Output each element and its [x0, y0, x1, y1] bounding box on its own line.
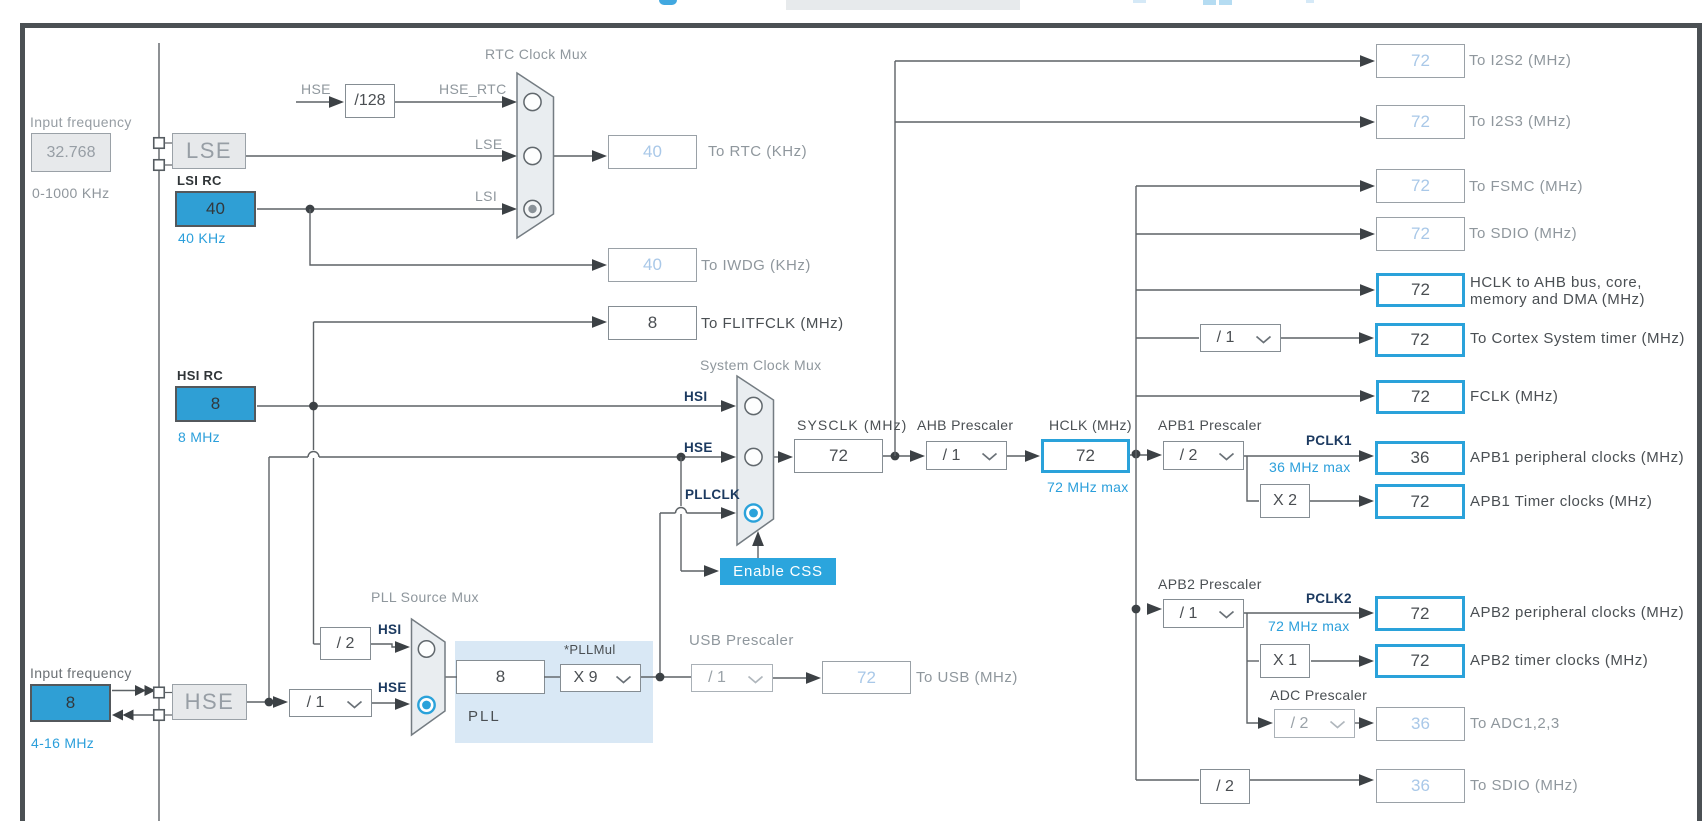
wire CSS rail down to Enable CSS [680, 457, 682, 571]
box HCLK 72 [1041, 439, 1130, 473]
toolbar remnant gray box [786, 0, 1020, 10]
label APB2 timer clocks [1470, 652, 1648, 669]
box APB1 peripheral 36 [1375, 441, 1465, 475]
dropdown APB1 prescaler /2 [1163, 441, 1244, 470]
box Enable CSS button [720, 558, 836, 585]
box To FLITFCLK 8 [608, 306, 697, 340]
label HCLK to AHB two lines [1470, 275, 1645, 308]
wire SYSCLK to AHB prescaler with junction [883, 455, 919, 457]
dropdown APB2 prescaler /1 [1163, 599, 1244, 628]
wire RTC mux output to To-RTC box [554, 155, 596, 157]
label To IWDG [701, 257, 811, 274]
RTC mux radio HSE_RTC [524, 93, 541, 110]
box input frequency 32.768 [31, 133, 111, 172]
label APB1 Prescaler [1158, 417, 1262, 433]
wire Enable CSS up arrow to mux [757, 541, 759, 558]
box To I2S3 72 [1376, 105, 1465, 139]
box /2 PLL HSI divider [320, 627, 371, 660]
label APB1 peripheral clocks [1470, 449, 1684, 466]
wire HSI output [257, 405, 725, 407]
wire system clock mux output SYSCLK [773, 456, 787, 458]
wire SYSCLK rail up to I2S [894, 61, 896, 456]
label RTC Clock Mux [485, 46, 587, 62]
label 40 KHz [178, 230, 226, 246]
wire HSE stub to /128 [296, 101, 333, 103]
label To I2S3 [1469, 113, 1571, 130]
label Input frequency bottom [30, 665, 132, 681]
dropdown HSE /1 divider [289, 689, 372, 717]
RTC mux radio LSI selected [524, 200, 541, 217]
label HCLK (MHz) [1049, 417, 1132, 433]
label System Clock Mux [700, 357, 822, 373]
box To SDIO bottom 36 [1376, 769, 1465, 803]
label ADC Prescaler [1270, 687, 1367, 703]
box APB2 peripheral 72 [1375, 596, 1465, 631]
box To RTC 40 [608, 135, 697, 169]
system mux radio PLLCLK selected [745, 504, 762, 521]
label LSI RC [177, 173, 222, 188]
label HSE_RTC [439, 81, 507, 97]
box HSE input frequency 8 [30, 684, 111, 722]
system mux radio HSI [745, 397, 762, 414]
box PLL input 8 [456, 660, 545, 694]
label FCLK (MHz) [1470, 388, 1558, 405]
wire HCLK rail to /2 SDIO divider [1136, 779, 1199, 781]
wire HSI rail to PLL /2 divider [314, 643, 321, 645]
wire HSE /1 to PLL source mux [372, 702, 404, 704]
dropdown ADC prescaler /2 disabled [1274, 709, 1355, 738]
label HSE stub [301, 81, 331, 97]
label To RTC [708, 143, 807, 160]
wire X1 to APB2 timer box [1311, 660, 1368, 662]
box APB1 timer 72 [1375, 484, 1465, 519]
label 8 MHz [178, 429, 220, 445]
handles on rail for LSE [154, 138, 165, 149]
label Input frequency top [30, 114, 132, 130]
box /2 SDIO divider [1200, 769, 1250, 804]
box APB2 timer 72 [1375, 644, 1465, 678]
wire /128 to RTC mux HSE_RTC input [395, 101, 506, 103]
label HSI mux input [684, 389, 707, 404]
wire /2 to PLL source mux HSI input [371, 644, 404, 647]
wire ADC prescaler to ADC box [1355, 722, 1368, 724]
box X2 multiplier [1260, 484, 1310, 518]
system clock mux trapezoid [737, 376, 774, 545]
box To ADC 36 [1376, 707, 1465, 741]
RTC mux radio LSE [524, 147, 541, 164]
wire APB1 branch to X2 multiplier [1247, 456, 1259, 501]
wire /2 to SDIO bottom box [1250, 779, 1368, 781]
label SYSCLK (MHz) [797, 417, 907, 433]
wire to FCLK box [1136, 395, 1369, 397]
label LSE input [475, 136, 503, 152]
label To Cortex System timer [1470, 330, 1685, 347]
wire HSE to system clock mux with hop over HSI rail [269, 456, 725, 458]
label PLL Source Mux [371, 589, 479, 605]
toolbar remnant faint icons [1133, 0, 1146, 3]
label To FSMC [1469, 178, 1583, 195]
label HSE PLL input [378, 680, 407, 695]
system mux radio HSE [745, 448, 762, 465]
label APB1 Timer clocks [1470, 493, 1652, 510]
label PLL [468, 708, 501, 725]
label To USB [916, 669, 1018, 686]
label AHB Prescaler [917, 417, 1013, 433]
label PLLCLK mux input [685, 487, 740, 502]
wire PLL source mux to PLL block [445, 676, 457, 678]
box X1 multiplier [1260, 644, 1310, 678]
wire APB1 prescaler to APB1 peripheral box PCLK1 [1244, 455, 1368, 457]
PLL highlighted panel [455, 641, 653, 743]
wire to FSMC box [1136, 185, 1369, 187]
label LSI input [475, 188, 497, 204]
label USB Prescaler [689, 632, 794, 649]
label PCLK1 [1306, 433, 1352, 448]
wire APB2 branch down to X1 and ADC prescaler [1247, 613, 1267, 723]
wire AHB prescaler to HCLK box [1007, 455, 1034, 457]
wire HSE output to /1 divider [247, 701, 283, 703]
box LSE oscillator [172, 133, 246, 169]
dropdown AHB prescaler /1 [926, 441, 1007, 470]
wire Cortex prescaler to Cortex timer box [1281, 337, 1368, 339]
label To FLITFCLK [701, 315, 844, 332]
RTC clock mux trapezoid [517, 73, 554, 238]
dropdown PLLMul X9 [560, 664, 641, 692]
PLL mux radio HSE selected [418, 697, 434, 713]
box LSI RC 40 [175, 191, 256, 227]
label APB2 peripheral clocks [1470, 604, 1684, 621]
box To FSMC 72 [1376, 169, 1465, 203]
dropdown Cortex /1 [1200, 324, 1281, 352]
wire LSI to IWDG [310, 209, 596, 265]
wire LSI output with junction [257, 208, 506, 210]
label 72 MHz max APB2 [1268, 618, 1350, 634]
label HSI PLL input [378, 622, 401, 637]
box Cortex timer 72 [1375, 323, 1465, 357]
wire HCLK distribution rail [1135, 186, 1137, 780]
handles on rail for HSE [154, 687, 165, 698]
wire HSE osc return double arrows [131, 714, 154, 716]
toolbar remnant blue icon bottom [659, 0, 677, 5]
box To IWDG 40 [608, 248, 697, 282]
box To I2S2 72 [1376, 44, 1465, 78]
PLL source mux trapezoid [412, 619, 446, 735]
wire LSE output to RTC mux [246, 155, 506, 157]
label To ADC123 [1470, 715, 1560, 732]
wire to I2S3 box [895, 121, 1369, 123]
label APB2 Prescaler [1158, 576, 1262, 592]
dropdown USB prescaler /1 disabled [691, 664, 773, 692]
wire HSI rail FLITF branch [313, 322, 315, 644]
box To SDIO 72 [1376, 217, 1465, 251]
label 0-1000 KHz [32, 185, 109, 201]
wire USB prescaler to USB box [773, 677, 815, 679]
wire APB2 junction and prescaler [1132, 605, 1141, 614]
wire HSE osc double arrows from input box [112, 690, 136, 692]
label *PLLMul [564, 642, 616, 657]
wire to I2S2 box [895, 60, 1369, 62]
box HSE oscillator [172, 684, 247, 720]
label To SDIO [1469, 225, 1577, 242]
label HSE mux input [684, 440, 713, 455]
wire HCLK output junction to APB1 prescaler [1130, 454, 1156, 456]
box HSI RC 8 [175, 386, 256, 422]
label To SDIO bottom [1470, 777, 1578, 794]
wire to HCLK AHB box [1136, 289, 1369, 291]
wire HSE rail up from HSE osc [268, 457, 270, 702]
wire PLL output rail to PLLCLK input with hop over CSS rail [659, 513, 661, 677]
box SYSCLK 72 [794, 439, 883, 473]
label 36 MHz max [1269, 459, 1351, 475]
box FCLK 72 [1376, 380, 1465, 414]
wire to SDIO box [1136, 233, 1369, 235]
box /128 divider [345, 84, 395, 118]
wire PLLMul to junction and USB prescaler [544, 676, 560, 678]
box To USB 72 [822, 661, 911, 694]
wire left vertical rail [158, 43, 160, 821]
wire APB2 prescaler to APB2 peripheral box PCLK2 [1244, 612, 1368, 614]
label HSI RC [177, 368, 223, 383]
wire to Cortex prescaler [1136, 337, 1199, 339]
label 72 MHz max [1047, 479, 1129, 495]
wire X2 to APB1 timer box [1310, 500, 1368, 502]
label PCLK2 [1306, 591, 1352, 606]
label To I2S2 [1469, 52, 1571, 69]
box HCLK AHB 72 [1376, 273, 1465, 307]
PLL mux radio HSI [418, 641, 434, 657]
label 4-16 MHz [31, 735, 94, 751]
